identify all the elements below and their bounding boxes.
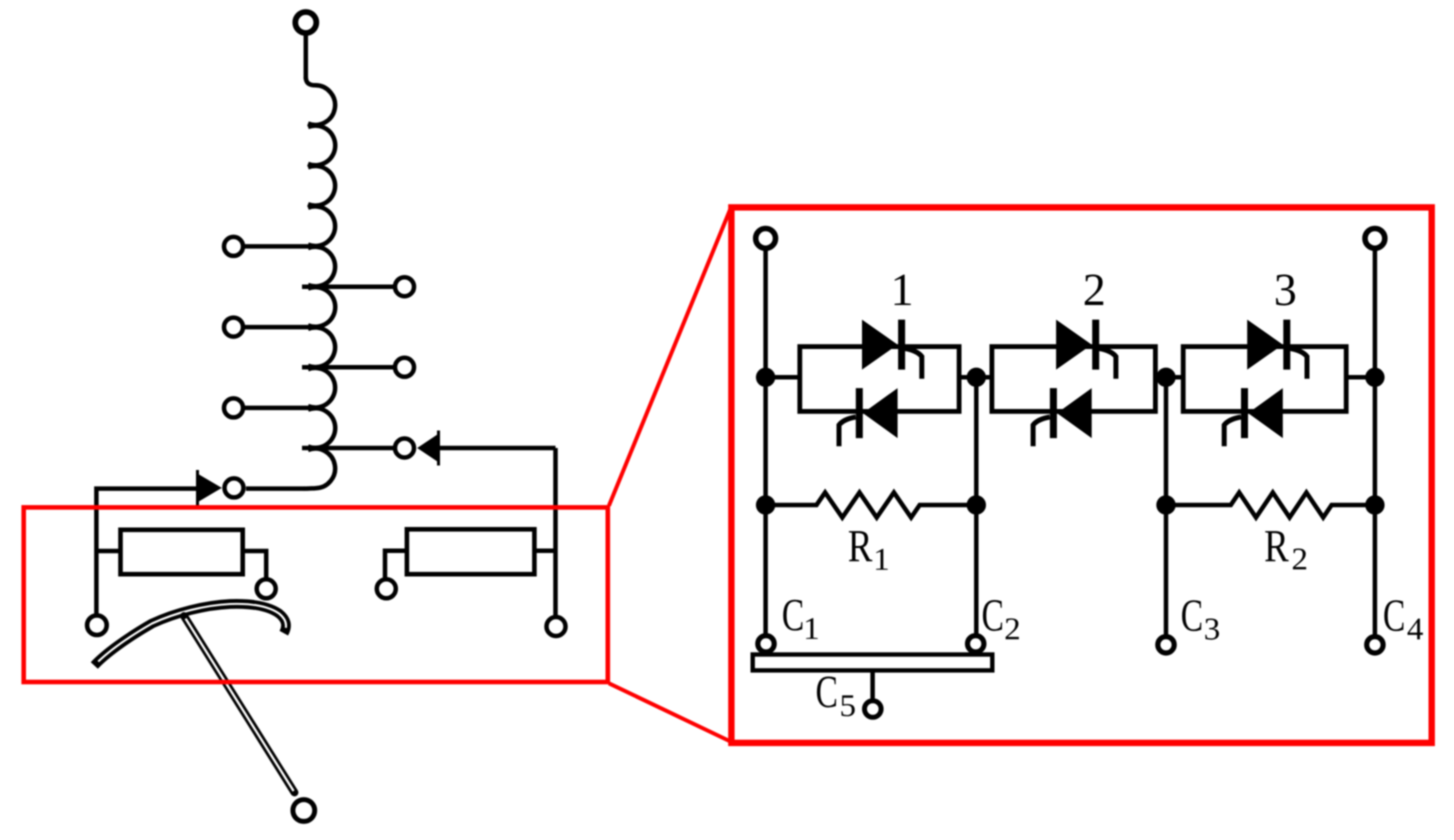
- thyristor 2a anode-right triangle: [1056, 320, 1092, 370]
- junction node D (box3 / right rail): [1365, 368, 1384, 387]
- wire right stub of left box: [243, 551, 267, 578]
- thyristor 2a cathode bar: [1092, 320, 1099, 370]
- wire tap 1 left: [245, 244, 320, 249]
- wire tap 3 right (selected tap): [302, 446, 393, 451]
- thyristor 2a gate lead: [1099, 349, 1116, 379]
- red connector line top: [609, 209, 731, 506]
- wire bottom tap from winding end: [246, 486, 305, 491]
- wire stub rail to box 1: [766, 375, 800, 380]
- thyristor pair box 1: [800, 347, 959, 412]
- wire left stub of left box: [96, 549, 120, 554]
- wire tap 1 right: [302, 284, 393, 289]
- wire tap 2 left: [245, 325, 320, 330]
- resistor box R-a (left transition resistor): [121, 530, 243, 574]
- thyristor 1a gate lead: [905, 349, 922, 379]
- label 2: [1085, 275, 1103, 305]
- wire right rail: [1373, 249, 1378, 637]
- terminal tap 1 left: [224, 237, 243, 256]
- wire box3 to right rail: [1346, 375, 1375, 380]
- wire C5 stub: [870, 670, 875, 700]
- wire top terminal to winding: [304, 33, 309, 79]
- thyristor 3a anode-right triangle: [1247, 320, 1283, 370]
- junction node B (box1 / box2 / C2 branch): [967, 368, 986, 387]
- red connector line bottom: [609, 683, 731, 741]
- thyristor 3a cathode bar: [1283, 320, 1290, 370]
- terminal tap 1 right: [395, 277, 414, 296]
- label C4: [1384, 600, 1403, 631]
- thyristor 2b cathode bar: [1050, 388, 1057, 438]
- terminal C1: [758, 636, 774, 652]
- terminal C5: [865, 701, 882, 718]
- thyristor 1b cathode bar: [856, 388, 863, 438]
- terminal C4: [1367, 637, 1383, 653]
- junction node C (box2 / box3 / C3 branch): [1156, 368, 1175, 387]
- resistor box R-b (right transition resistor): [407, 529, 535, 574]
- terminal left of right box: [377, 579, 396, 598]
- terminal tap 3 right: [395, 439, 414, 458]
- thyristor 1a cathode bar: [898, 320, 905, 370]
- thyristor pair box 2: [992, 347, 1156, 412]
- label C1: [783, 600, 802, 631]
- terminal tap 2 left: [224, 318, 243, 337]
- junction R1 right node: [967, 495, 986, 514]
- wire right stub of right box: [534, 549, 555, 554]
- wire down to switch contact (node B): [553, 448, 558, 617]
- inductor L1 winding (10 turns): [304, 77, 335, 489]
- thyristor 3b cathode bar: [1241, 388, 1248, 438]
- label C5: [817, 677, 836, 708]
- thyristor 2b anode-left triangle: [1057, 388, 1092, 438]
- junction R1 left node: [756, 495, 775, 514]
- thyristor 1b gate lead: [839, 417, 856, 446]
- terminal bottom tap: [225, 478, 244, 497]
- wiper rod (double line): [184, 616, 295, 793]
- terminal at rod end: [293, 800, 315, 822]
- terminal right of left box: [257, 579, 276, 598]
- terminal C2: [968, 636, 984, 652]
- busbar plate below C1-C2: [753, 655, 993, 671]
- thyristor pair 1 symbols: [839, 320, 922, 447]
- thyristor 3a gate lead: [1290, 349, 1307, 379]
- terminal left bottom: [87, 615, 107, 635]
- thyristor 1b anode-left triangle: [863, 388, 898, 438]
- wire box2 to node: [1155, 375, 1183, 380]
- junction R2 right node: [1365, 495, 1384, 514]
- terminal top right: [1365, 229, 1385, 249]
- label R2: [1265, 531, 1288, 561]
- wire tap 2 right: [302, 365, 393, 370]
- red highlight rectangle (small): [24, 507, 608, 682]
- thyristor 3b anode-left triangle: [1248, 388, 1283, 438]
- label R1: [849, 531, 872, 561]
- arrow into bottom terminal (points right): [198, 470, 222, 506]
- wire from arrow to right corner: [439, 446, 556, 451]
- label C2: [983, 600, 1002, 631]
- thyristor 2b gate lead: [1033, 417, 1050, 446]
- thyristor pair box 3: [1183, 347, 1346, 412]
- junction node A (left rail / box1): [756, 368, 775, 387]
- resistor R1: [766, 493, 977, 518]
- thyristor 3b gate lead: [1224, 417, 1241, 446]
- junction R2 left node: [1156, 495, 1175, 514]
- terminal tap 3 left: [224, 398, 243, 417]
- terminal top left: [756, 229, 776, 249]
- thyristor symbols: [839, 320, 1307, 447]
- resistor R2: [1166, 493, 1375, 518]
- terminal C3: [1158, 637, 1174, 653]
- wire left rail: [763, 249, 768, 637]
- label 3: [1276, 275, 1295, 306]
- wire dropper node2 down (C3 branch): [1164, 377, 1169, 636]
- wire left stub of right box: [385, 551, 407, 578]
- label C3: [1182, 600, 1201, 631]
- terminal tap 2 right: [395, 358, 414, 377]
- labels: [783, 275, 1423, 717]
- thyristor pair 2 symbols: [1033, 320, 1116, 447]
- wire dropper node1 down (C2 branch): [974, 377, 979, 635]
- label 1: [895, 275, 911, 305]
- terminal top of winding: [295, 12, 316, 33]
- wire from arrow left and down: [96, 489, 197, 614]
- thyristor pair 3 symbols: [1224, 320, 1307, 447]
- selector wiper arc (double line): [94, 604, 286, 666]
- terminal below wire: [547, 617, 566, 636]
- arrow into tap 3 terminal (points left): [417, 431, 438, 466]
- thyristor 1a anode-right triangle: [862, 320, 898, 370]
- red detail rectangle (big): [731, 207, 1431, 743]
- wire tap 3 left: [245, 406, 320, 411]
- wire box1 to node: [959, 375, 992, 380]
